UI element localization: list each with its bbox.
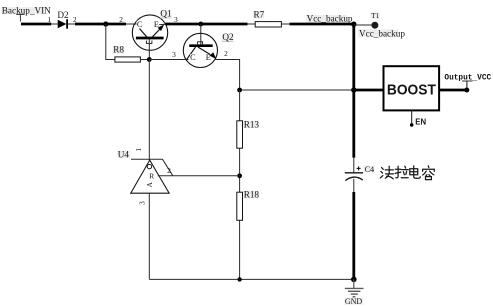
wire top rail left: [21, 23, 51, 26]
svg-text:EN: EN: [415, 118, 426, 127]
svg-text:GND: GND: [345, 297, 363, 306]
wire top rail R7 to corner and trunk down: [290, 24, 354, 158]
svg-text:R8: R8: [113, 45, 124, 55]
svg-text:Vcc_backup: Vcc_backup: [359, 28, 405, 38]
label R18: [243, 190, 259, 200]
svg-text:E: E: [206, 53, 211, 62]
diode D2: [51, 19, 75, 28]
port Backup_VIN: [2, 5, 52, 21]
wire Q2 emitter to corner and down: [215, 60, 240, 91]
resistor R8: [115, 57, 140, 62]
svg-text:3: 3: [137, 201, 146, 205]
wire junction to Q2 collector: [149, 59, 188, 61]
svg-text:2: 2: [167, 166, 171, 175]
node corner junction at trunk top: [351, 22, 356, 27]
node junction Q1 base / R8: [147, 57, 152, 62]
node junction at R8 branch: [103, 21, 108, 26]
wire stub to test point T1: [354, 24, 371, 26]
node output endpoint: [464, 88, 469, 93]
resistor R18: [237, 192, 243, 220]
pin EN: [410, 111, 427, 127]
svg-text:U4: U4: [118, 149, 130, 159]
svg-text:Q1: Q1: [160, 9, 172, 19]
svg-text:3: 3: [172, 50, 176, 59]
ground: [344, 279, 363, 306]
node junction R18 bottom: [237, 277, 241, 281]
wire top rail diode to Q1: [75, 23, 126, 26]
net label Vcc_backup (top): [306, 14, 353, 24]
block BOOST converter: [384, 66, 440, 110]
svg-text:R18: R18: [244, 190, 260, 200]
svg-text:3: 3: [174, 15, 178, 24]
node junction divider mid: [237, 173, 242, 178]
wire bottom rail: [149, 278, 353, 280]
annotation 法拉电容 (farad capacitor): [380, 166, 434, 180]
svg-text:T1: T1: [371, 12, 379, 20]
node junction BOOST input: [351, 87, 356, 92]
wire U4 pin2 to divider junction: [158, 175, 240, 177]
wire R8 to base junction: [140, 59, 149, 61]
wire U4 pin1 stub: [131, 158, 150, 160]
transistor Q1: [126, 15, 168, 50]
capacitor C4: [345, 158, 363, 193]
wire R13 top lead: [239, 90, 241, 121]
svg-text:A: A: [145, 182, 154, 188]
op-amp U4 (shunt reference triangle): [131, 160, 170, 193]
wire U4 pin3 down: [148, 193, 150, 279]
transistor Q2: [183, 24, 217, 68]
wire Q2 branch to trunk: [240, 89, 354, 91]
wire trunk to BOOST input: [354, 89, 384, 92]
wire U4 cathode to reference step: [150, 159, 173, 176]
svg-text:Backup_VIN: Backup_VIN: [2, 5, 51, 15]
svg-text:R7: R7: [254, 9, 265, 19]
wire top rail Q1 to R7: [166, 23, 248, 26]
wire BOOST output: [440, 89, 467, 92]
svg-text:D2: D2: [57, 10, 69, 20]
wire junction down to U4 pin1: [148, 60, 150, 161]
label R8: [113, 45, 125, 55]
wire R18 bottom lead: [239, 220, 241, 279]
svg-text:C: C: [190, 53, 196, 62]
label C4: [364, 165, 375, 174]
resistor R7: [248, 22, 290, 27]
test point T1: [371, 22, 378, 29]
wire Q1 base lead down: [148, 39, 150, 60]
svg-text:BOOST: BOOST: [387, 83, 436, 99]
wire trunk lower: [352, 192, 355, 279]
node junction ground rail: [351, 277, 357, 283]
label T1: [371, 12, 380, 20]
svg-text:1: 1: [134, 148, 143, 152]
svg-text:1: 1: [47, 15, 51, 24]
label R13: [243, 119, 259, 129]
net label Vcc_backup (below T1): [358, 28, 405, 38]
node junction Q2 base: [198, 22, 203, 27]
label R7: [253, 9, 265, 19]
svg-text:2: 2: [119, 15, 123, 24]
svg-text:R13: R13: [244, 119, 260, 129]
node junction R13 top: [237, 88, 242, 93]
svg-text:C4: C4: [365, 165, 375, 174]
svg-text:2: 2: [224, 49, 228, 58]
label Q1: [160, 9, 172, 19]
label U4: [117, 149, 130, 159]
svg-text:Q2: Q2: [222, 32, 234, 42]
port Output_VCC: [444, 74, 491, 87]
wire R13 bottom to R18 top: [239, 148, 241, 192]
resistor R13: [237, 121, 243, 148]
svg-text:Vcc_backup: Vcc_backup: [307, 14, 353, 24]
svg-text:C: C: [137, 20, 143, 29]
label Q2: [222, 32, 234, 42]
wire branch down to R8: [106, 24, 115, 60]
